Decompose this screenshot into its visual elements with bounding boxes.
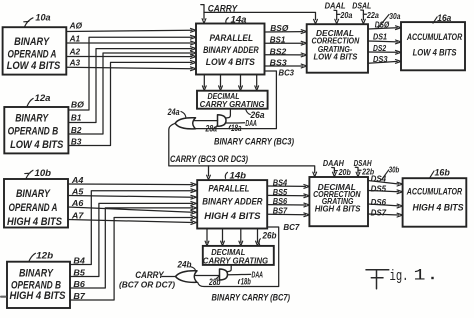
svg-text:18a: 18a (231, 123, 242, 133)
svg-text:DS5: DS5 (371, 183, 387, 193)
wire BS1 (265, 35, 307, 45)
label 14b (225, 171, 246, 181)
wire BS6 (267, 196, 309, 207)
svg-text:PARALLEL: PARALLEL (208, 183, 249, 194)
label 24b (177, 259, 196, 270)
svg-text:ig.: ig. (390, 268, 409, 285)
wire BS3 (265, 57, 307, 68)
label 28b (208, 276, 221, 287)
label 14a (226, 15, 247, 25)
svg-text:BC3: BC3 (279, 67, 295, 77)
svg-text:CARRY GRATING: CARRY GRATING (203, 257, 268, 266)
wire BS7 (267, 206, 309, 217)
svg-text:B7: B7 (73, 291, 86, 301)
wire B7 (70, 216, 196, 301)
svg-text:HIGH 4 BITS: HIGH 4 BITS (315, 205, 361, 214)
svg-text:DS4: DS4 (371, 174, 387, 184)
svg-text:12a: 12a (35, 93, 51, 103)
svg-text:OPERAND A: OPERAND A (9, 202, 58, 214)
svg-text:B5: B5 (73, 267, 85, 277)
wire A3 (66, 57, 196, 70)
svg-text:CARRY (BC3 OR DC3): CARRY (BC3 OR DC3) (170, 154, 248, 164)
svg-text:16b: 16b (435, 167, 451, 177)
wire DS1 (368, 32, 401, 44)
wire BS4 (267, 177, 309, 188)
DAAL input stub (325, 2, 346, 24)
and-gate 18b (220, 269, 228, 280)
label 12b (29, 251, 54, 262)
label 20b (334, 167, 350, 177)
label 26a (246, 110, 265, 120)
label 18b (238, 276, 251, 286)
svg-text:A2: A2 (69, 47, 81, 57)
wire DS7 (368, 207, 403, 217)
svg-text:OPERAND A: OPERAND A (8, 48, 57, 60)
wire B1 (68, 47, 196, 123)
CARRY input stub (201, 4, 239, 24)
label 22a (363, 10, 379, 20)
svg-text:14a: 14a (231, 15, 247, 25)
svg-text:HIGH 4 BITS: HIGH 4 BITS (7, 216, 63, 228)
scan artifact left edge (0, 296, 7, 298)
wire DS6 (368, 197, 403, 208)
svg-text:HIGH 4 BITS: HIGH 4 BITS (204, 211, 261, 222)
wire DS2 (368, 43, 401, 54)
box 12a BINARY OPERAND B LOW 4 BITS (4, 107, 68, 153)
wire A7 (68, 210, 196, 224)
wire carry output of or-gate 24b (162, 276, 176, 278)
label 30a (378, 11, 401, 28)
label 16a (433, 13, 451, 23)
svg-text:ACCUMULATOR: ACCUMULATOR (406, 32, 462, 43)
wire carry-grating 26b DAA output into gate 18b (227, 265, 231, 272)
wire gate 18b to or-gate 24b (195, 275, 219, 277)
wire A4 (68, 175, 196, 187)
svg-text:BS1: BS1 (270, 35, 286, 45)
svg-text:1: 1 (414, 267, 426, 285)
wire DS3 (368, 54, 401, 64)
wire B0 (68, 35, 196, 110)
label 26b (259, 230, 277, 245)
wire B6 (70, 206, 196, 289)
svg-text:BINARY ADDER: BINARY ADDER (202, 197, 262, 208)
wire A6 (68, 198, 196, 214)
wire carry (BC3 OR DC3) from or-gate 24a output (169, 123, 317, 176)
svg-text:A5: A5 (71, 186, 84, 196)
svg-text:OPERAND B: OPERAND B (8, 125, 59, 137)
svg-text:14b: 14b (230, 171, 247, 181)
box 26b DECIMAL CARRY GRATING (203, 246, 274, 266)
svg-text:30b: 30b (389, 165, 400, 175)
svg-text:DS1: DS1 (373, 32, 387, 42)
label 30b (382, 165, 400, 180)
label 10b (25, 168, 52, 179)
wire adder-to-carry-grating connector 2 (219, 75, 223, 91)
svg-text:BS6: BS6 (273, 196, 288, 206)
svg-text:10a: 10a (35, 13, 50, 23)
wire adder-to-carry-grating connector 1 (202, 75, 206, 91)
wire adder-to-carry-grating connector 6 (221, 229, 225, 246)
svg-text:DAA: DAA (245, 118, 257, 128)
svg-text:12b: 12b (36, 251, 54, 261)
svg-text:HIGH 4 BITS: HIGH 4 BITS (413, 202, 465, 213)
svg-text:16a: 16a (437, 13, 451, 23)
wire carry drop into adder 14b (207, 166, 211, 180)
label 24a (167, 107, 186, 117)
wire adder-to-carry-grating connector 5 (205, 229, 209, 246)
wire DS4 (368, 174, 403, 186)
svg-text:BINARY: BINARY (16, 188, 51, 200)
box 12b BINARY OPERAND B HIGH 4 BITS (7, 262, 70, 308)
svg-text:24b: 24b (177, 259, 192, 269)
box 26a DECIMAL CARRY GRATING (197, 91, 268, 110)
wire B5 (70, 202, 196, 278)
svg-text:BC7: BC7 (283, 222, 300, 232)
figure title Fig. 1. (366, 267, 434, 289)
wire adder-to-carry-grating connector 7 (239, 229, 243, 246)
wire A2 (66, 47, 196, 59)
svg-text:PARALLEL: PARALLEL (210, 33, 254, 44)
svg-text:DSØ: DSØ (375, 20, 390, 30)
svg-text:DS2: DS2 (373, 43, 386, 53)
svg-text:LOW 4 BITS: LOW 4 BITS (413, 48, 457, 59)
svg-text:BINARY ADDER: BINARY ADDER (203, 45, 259, 56)
svg-text:B1: B1 (71, 112, 82, 122)
svg-text:A1: A1 (69, 34, 81, 44)
svg-text:22a: 22a (366, 10, 379, 20)
wire DAA label tick (226, 118, 257, 128)
svg-text:DAA: DAA (252, 270, 264, 280)
box 14a PARALLEL BINARY ADDER LOW 4 BITS (196, 24, 265, 75)
label 16b (430, 167, 450, 177)
DSAH input stub (354, 159, 372, 177)
wire B2 (68, 51, 196, 135)
svg-text:28b: 28b (208, 277, 221, 287)
box 16a ACCUMULATOR LOW 4 BITS (401, 22, 465, 70)
svg-text:18b: 18b (241, 276, 251, 286)
svg-text:DS3: DS3 (373, 54, 388, 64)
or-gate 24b (176, 271, 198, 283)
svg-text:BINARY: BINARY (14, 36, 50, 48)
svg-text:20b: 20b (338, 167, 351, 177)
wire BS0 (265, 23, 307, 34)
box 10a BINARY OPERAND A LOW 4 BITS (3, 27, 67, 74)
svg-text:(BC7 OR DC7): (BC7 OR DC7) (119, 280, 175, 290)
label 22b (358, 166, 374, 176)
label 28a (205, 124, 217, 134)
wire A1 (66, 34, 196, 45)
DAAH input stub (323, 159, 344, 177)
svg-text:DS7: DS7 (371, 207, 388, 217)
or-gate 24a (175, 118, 195, 129)
svg-text:BINARY CARRY (BC3): BINARY CARRY (BC3) (214, 137, 294, 147)
wire B4 (70, 189, 196, 265)
wire carry branch to decimal correction grating low (204, 12, 317, 24)
wire adder-to-carry-grating connector 3 (239, 75, 243, 91)
wire adder-to-carry-grating connector 8 (256, 229, 260, 246)
wire gate 18a to or-gate 24a (194, 120, 218, 122)
wire BS5 (267, 187, 309, 198)
svg-text:BINARY CARRY (BC7): BINARY CARRY (BC7) (212, 293, 291, 303)
wire BC7 from adder to or-gate 24b (198, 222, 301, 287)
svg-text:HIGH 4 BITS: HIGH 4 BITS (10, 290, 67, 302)
svg-text:BØ: BØ (71, 100, 84, 110)
svg-text:LOW 4 BITS: LOW 4 BITS (206, 57, 256, 68)
svg-text:CARRY: CARRY (135, 270, 164, 280)
svg-text:LOW 4 BITS: LOW 4 BITS (10, 139, 64, 151)
svg-text:BSØ: BSØ (270, 23, 288, 33)
DSAL input stub (352, 2, 371, 24)
label 10a (24, 13, 51, 27)
svg-text:ACCUMULATOR: ACCUMULATOR (406, 187, 462, 198)
svg-text:LOW 4 BITS: LOW 4 BITS (314, 53, 359, 62)
wire BS2 (265, 46, 307, 56)
wire A5 (68, 186, 196, 199)
box 10b BINARY OPERAND A HIGH 4 BITS (4, 179, 68, 228)
box 14b PARALLEL BINARY ADDER HIGH 4 BITS (197, 180, 267, 228)
label 12a (27, 93, 51, 107)
svg-text:B2: B2 (71, 125, 82, 135)
svg-text:24a: 24a (167, 107, 180, 117)
wire DS0 (368, 20, 401, 30)
svg-text:BS4: BS4 (273, 177, 288, 187)
and-gate 18a (218, 115, 227, 127)
svg-text:BINARY: BINARY (15, 113, 49, 125)
wire A0 (66, 20, 196, 32)
svg-text:B3: B3 (71, 136, 82, 146)
svg-text:B4: B4 (73, 255, 85, 265)
box 20a DECIMAL CORRECTION GRATING LOW 4 BITS (307, 24, 368, 72)
svg-text:26b: 26b (262, 230, 277, 240)
label 20a (337, 10, 353, 20)
svg-text:BS7: BS7 (273, 206, 289, 216)
svg-text:BS3: BS3 (270, 57, 287, 67)
wire BC3 from adder to or-gate 24a (196, 67, 294, 128)
wire B3 (68, 61, 196, 147)
svg-text:B6: B6 (73, 279, 85, 289)
svg-text:A6: A6 (71, 198, 84, 208)
svg-text:A3: A3 (69, 57, 81, 67)
wire adder-to-carry-grating connector 4 (255, 75, 259, 91)
svg-text:20a: 20a (340, 10, 353, 20)
box 20b DECIMAL CORRECTION GRATING HIGH 4 BITS (309, 177, 368, 226)
svg-text:28a: 28a (205, 124, 217, 134)
svg-text:LOW 4 BITS: LOW 4 BITS (7, 60, 61, 72)
wire DS5 (368, 183, 403, 193)
svg-text:BINARY: BINARY (19, 267, 54, 279)
svg-text:DS6: DS6 (371, 197, 387, 207)
svg-text:A4: A4 (71, 175, 84, 185)
label 18a (229, 123, 241, 133)
svg-text:A7: A7 (71, 210, 85, 220)
box 16b ACCUMULATOR HIGH 4 BITS (403, 178, 467, 227)
svg-text:BS2: BS2 (270, 46, 287, 56)
svg-text:CARRY GRATING: CARRY GRATING (200, 100, 265, 109)
svg-text:30a: 30a (389, 11, 400, 21)
wire carry-grating DAA output into gate 18a (226, 109, 231, 118)
wire DAA label tick bottom (228, 270, 264, 280)
svg-text:10b: 10b (35, 168, 52, 178)
svg-text:AØ: AØ (69, 20, 83, 30)
